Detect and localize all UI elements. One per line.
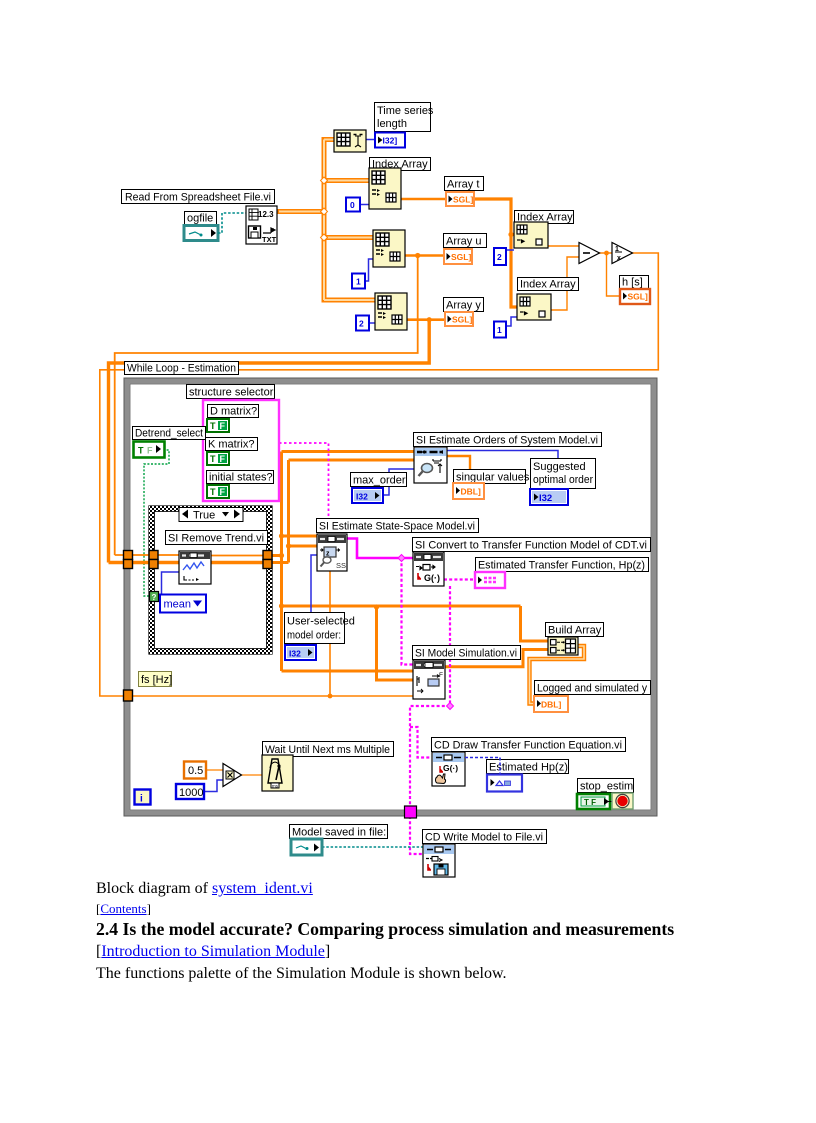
svg-text:Array t: Array t [447,179,479,191]
label: structure selector [187,385,275,399]
svg-text:singular values: singular values [456,472,530,484]
control: Detrend_select TF [134,442,165,458]
op: reciprocal 1/x [612,243,633,264]
svg-text:SI Estimate Orders of System M: SI Estimate Orders of System Model.vi [416,435,598,447]
wire: blue from Array Size to I32 [366,139,374,141]
indicator: Estimated Hp(z) equation [487,775,522,792]
icon: CD Write Model to File.vi [423,844,455,877]
wire: logged y branch down to Model Simulation [377,607,414,680]
svg-text:optimal order: optimal order [533,474,593,486]
label: max_order [351,473,407,487]
const: 1 [352,274,365,289]
label: Estimated Hp(z) [487,760,569,774]
svg-text:User-selected: User-selected [287,616,355,628]
label: While Loop - Estimation [125,362,239,375]
tunnel: pink model out (bottom border) [405,806,417,818]
svg-text:ogfile: ogfile [187,213,213,225]
wire: subtract to reciprocal, h[s] drop [599,253,620,296]
svg-text:Model saved in file:: Model saved in file: [292,827,386,839]
svg-text:12.3: 12.3 [258,210,274,219]
wire: pink TF model from SI Convert to indicator and down to CD Draw / tunnel [410,580,475,855]
svg-text:2: 2 [497,252,502,262]
svg-text:Index Array: Index Array [520,279,576,291]
icon: Index Array right 2 [517,294,551,320]
wire: fs from left tunnel to State-Space and Model Simulation [124,571,437,696]
label: Suggested optimal order [531,459,596,489]
tunnel: case selector ? (green) [150,592,159,603]
wire: right Index2 out to subtract [551,257,579,310]
icon: SI Remove Trend.vi [179,551,211,584]
svg-text:?: ? [152,593,157,602]
svg-text:F: F [439,672,443,679]
control: User-selected I32 [285,645,316,660]
icon: Index Array right 1 [514,222,548,248]
wire: 2D array trunk from Read-From-Spreadsheet (double orange) [277,137,375,303]
icon: Wait Until Next ms Multiple (metronome) [262,755,293,791]
wire: pink model branch down to Model Simulation [402,558,414,665]
svg-text:Read From Spreadsheet File.vi: Read From Spreadsheet File.vi [125,192,271,204]
svg-text:DBL]: DBL] [541,700,561,710]
const: 1000 [176,784,204,799]
label: SI Model Simulation.vi [413,646,521,660]
wire: blue User-selected model order to State-Space [311,555,317,646]
icon: Array Size [334,130,366,152]
label: Index Array (left 1) [370,158,431,171]
icon: Index Array 2 [373,230,405,267]
label: h [s] [620,276,649,289]
svg-text:1: 1 [497,325,502,335]
label: Index Array (right 1) [515,211,574,224]
svg-text:G(·): G(·) [443,763,458,773]
label: Index Array (right 2) [518,278,579,291]
case selector: True [179,508,243,522]
label: CD Write Model to File.vi [423,830,547,844]
wires inside case: u and y through, SI Remove Trend [115,554,272,557]
svg-text:SI Convert to Transfer Functio: SI Convert to Transfer Function Model of… [415,540,647,552]
svg-text:Array y: Array y [446,300,481,312]
label: Array y [444,298,484,312]
wire: 2 to Index Array 3 [368,322,375,324]
icon: Read From Spreadsheet File.vi [246,206,277,244]
const: 0.5 [184,762,206,779]
svg-text:x: x [617,255,621,262]
indicator: singular values DBL [453,483,484,499]
indicator: I32 Time series length [375,133,405,148]
indicator: Estimated Transfer Function (pink) [475,572,505,588]
svg-text:G(·): G(·) [424,573,440,583]
label: fs [Hz] [139,672,173,687]
wire: blue max_order to Est Orders [383,469,415,495]
wire: pink model State-Space to SI Convert [346,539,413,559]
wire: multiply to Wait icon, 0.5 and 1000 wires [206,770,262,775]
svg-text:2: 2 [359,319,364,329]
wire: Est Orders out to singular values [447,456,470,483]
svg-text:DBL]: DBL] [461,487,481,497]
const: 2 [356,316,369,331]
svg-text:Array u: Array u [446,236,481,248]
svg-text:T: T [138,446,144,456]
label: User-selected model order: [285,613,355,644]
svg-text:0: 0 [350,200,355,210]
indicator: h[s] SGL [620,289,650,304]
wire: Index3 out to Array y [406,318,445,321]
svg-text:SGL]: SGL] [628,292,648,302]
control: K matrix TF [207,452,229,465]
junction diamonds on trunk [321,177,328,241]
label: Build Array [546,623,604,637]
wire: right Index1 out to subtract [548,245,579,247]
svg-text:CD Write Model to File.vi: CD Write Model to File.vi [425,832,543,844]
svg-text:Suggested: Suggested [533,461,586,473]
svg-text:h [s]: h [s] [622,277,643,289]
label: Array u [444,234,487,248]
svg-text:mean: mean [164,599,192,611]
svg-text:model order:: model order: [287,630,341,642]
icon: SI Estimate Orders of System Model.vi [414,447,447,483]
svg-text:stop_estim: stop_estim [580,781,633,793]
svg-text:I32: I32 [539,493,552,504]
indicator: Array y SGL [445,312,473,326]
const: 1 (right) [494,322,506,338]
svg-text:D matrix?: D matrix? [210,406,257,418]
control: D matrix TF [207,419,229,432]
svg-text:SI Remove Trend.vi: SI Remove Trend.vi [168,533,264,545]
svg-text:i: i [140,794,143,805]
label: Logged and simulated y [535,681,651,695]
icon: Index Array 1 [369,168,401,209]
label: initial states? [207,471,274,484]
wire: path wire (teal dashed) from logfile to reader icon [218,213,246,233]
label: Read From Spreadsheet File.vi [122,190,275,204]
control: stop_estim TF [577,794,610,809]
svg-text:fs [Hz]: fs [Hz] [141,674,172,686]
control: initial states TF [207,485,229,498]
wire: reciprocal out, around right and down-left into loop (h) [100,253,659,696]
svg-text:I32: I32 [289,649,301,659]
label: SI Convert to Transfer Function Model of CDT.vi [413,538,651,552]
indicator: Array t SGL [446,192,474,206]
label: Detrend_select [133,427,206,440]
label: CD Draw Transfer Function Equation.vi [432,738,626,752]
wire: Index1 out to Array t [401,198,446,201]
svg-text:max_order: max_order [353,475,406,487]
wire: 1 to Index Array 2 [364,259,373,281]
wire: TF to stop button [607,801,613,803]
svg-text:I32: I32 [356,492,368,502]
label: Model saved in file: [290,825,388,839]
case structure frame (checkered) [149,506,272,654]
label: Time series length [375,103,434,132]
label: singular values [454,470,530,484]
svg-text:0.5: 0.5 [188,765,203,777]
label: SI Remove Trend.vi [166,531,268,545]
svg-text:SS: SS [336,561,346,570]
svg-text:SGL]: SGL] [451,252,471,262]
wire: green boolean Detrend_select to case selector [144,450,169,596]
icon: Index Array 3 [375,293,407,330]
svg-text:1000: 1000 [179,787,203,799]
indicator: Array u SGL [444,249,472,264]
svg-text:True: True [193,510,215,522]
svg-text:Time series: Time series [377,105,434,117]
wire: blue Est Orders to Suggested optimal order [447,451,558,490]
label: Wait Until Next ms Multiple [263,742,394,757]
svg-text:length: length [377,118,407,130]
cluster frame (pink) [203,400,279,501]
wire: teal path Model-saved to CD Write [322,846,423,848]
label: Array t [445,177,484,191]
wire: Model Simulation out to Build Array [445,650,548,667]
svg-text:Estimated Transfer Function, H: Estimated Transfer Function, Hp(z) [478,560,645,572]
wire: blue dashed equation wire [465,758,500,776]
svg-text:K matrix?: K matrix? [208,439,254,451]
wire: 2 const to right Index Array 1 [506,249,514,251]
const: 2 (right) [494,248,506,265]
indicator: Suggested optimal order I32 [530,489,568,505]
label: Estimated Transfer Function, Hp(z) [476,558,649,572]
svg-text:1: 1 [356,277,361,287]
wire: Index2 out to Array u [404,254,444,257]
svg-text:Detrend_select: Detrend_select [135,428,203,440]
svg-text:Build Array: Build Array [548,625,602,637]
while loop frame [124,378,657,816]
op: multiply [223,764,242,787]
control: mean dropdown [160,595,206,613]
svg-text:SGL]: SGL] [453,195,473,205]
control: stop button (red) [612,793,633,809]
svg-text:SI Model Simulation.vi: SI Model Simulation.vi [415,648,517,660]
terminal: i (iteration) [135,790,151,805]
wire: Array t to right index arrays (thick) [474,199,517,307]
label: SI Estimate Orders of System Model.vi [414,433,602,447]
icon: SI Model Simulation.vi [413,660,445,699]
svg-text:I32]: I32] [383,136,398,146]
svg-text:Estimated Hp(z): Estimated Hp(z) [489,762,568,774]
indicator: Logged and simulated y DBL [534,696,568,712]
const: 0 [346,198,360,212]
wire: u down-left to loop (thick) [115,256,418,556]
control: logfile path (teal) [184,226,218,241]
svg-text:CD Draw Transfer Function Equa: CD Draw Transfer Function Equation.vi [434,740,622,752]
label: stop_estim [578,779,634,793]
wire: 0 to Index Array 1 [360,204,369,206]
svg-text:T F: T F [584,798,596,807]
icon: Build Array [548,637,578,655]
wire: u' vertical trunk feeding Est Orders, State-Space, Model Sim [272,452,548,672]
svg-text:While Loop - Estimation: While Loop - Estimation [127,363,236,375]
icon: SI Estimate State-Space Model.vi [317,534,347,571]
op: subtract [579,243,600,264]
label: SI Estimate State-Space Model.vi [317,519,479,533]
label: ogfile [185,212,217,225]
label: D matrix? [208,405,259,418]
control: max_order I32 [352,488,383,503]
svg-text:Wait Until Next ms Multiple: Wait Until Next ms Multiple [265,744,390,756]
svg-text:initial states?: initial states? [209,472,273,484]
icon: CD Draw Transfer Function Equation.vi [432,752,465,786]
svg-text:TXT: TXT [262,235,277,244]
svg-text:SGL]: SGL] [452,315,472,325]
svg-text:Logged and simulated y: Logged and simulated y [537,683,647,695]
icon: SI Convert to Transfer Function Model of CDT.vi [413,552,444,586]
svg-text:SI Estimate State-Space Model.: SI Estimate State-Space Model.vi [319,521,475,533]
svg-text:structure selector: structure selector [189,387,274,399]
wire: y' vertical trunk feeding Est Orders, State-Space [272,460,415,563]
wire: y down-left to loop (thick) [109,320,430,563]
svg-text:ms: ms [272,784,279,789]
indicator: Model saved path (teal) [291,839,322,855]
wire: pink cluster from structure selector to State-Space [279,443,329,534]
svg-text:F: F [147,446,153,456]
tunnels: loop and case borders (orange squares) [124,551,273,702]
wire: blue mean to SI Remove Trend [162,572,181,594]
label: K matrix? [206,438,258,451]
wire: Build Array out to Logged and simulated y (double) [530,646,585,704]
wire: 1 const to right Index Array 2 [506,317,517,326]
